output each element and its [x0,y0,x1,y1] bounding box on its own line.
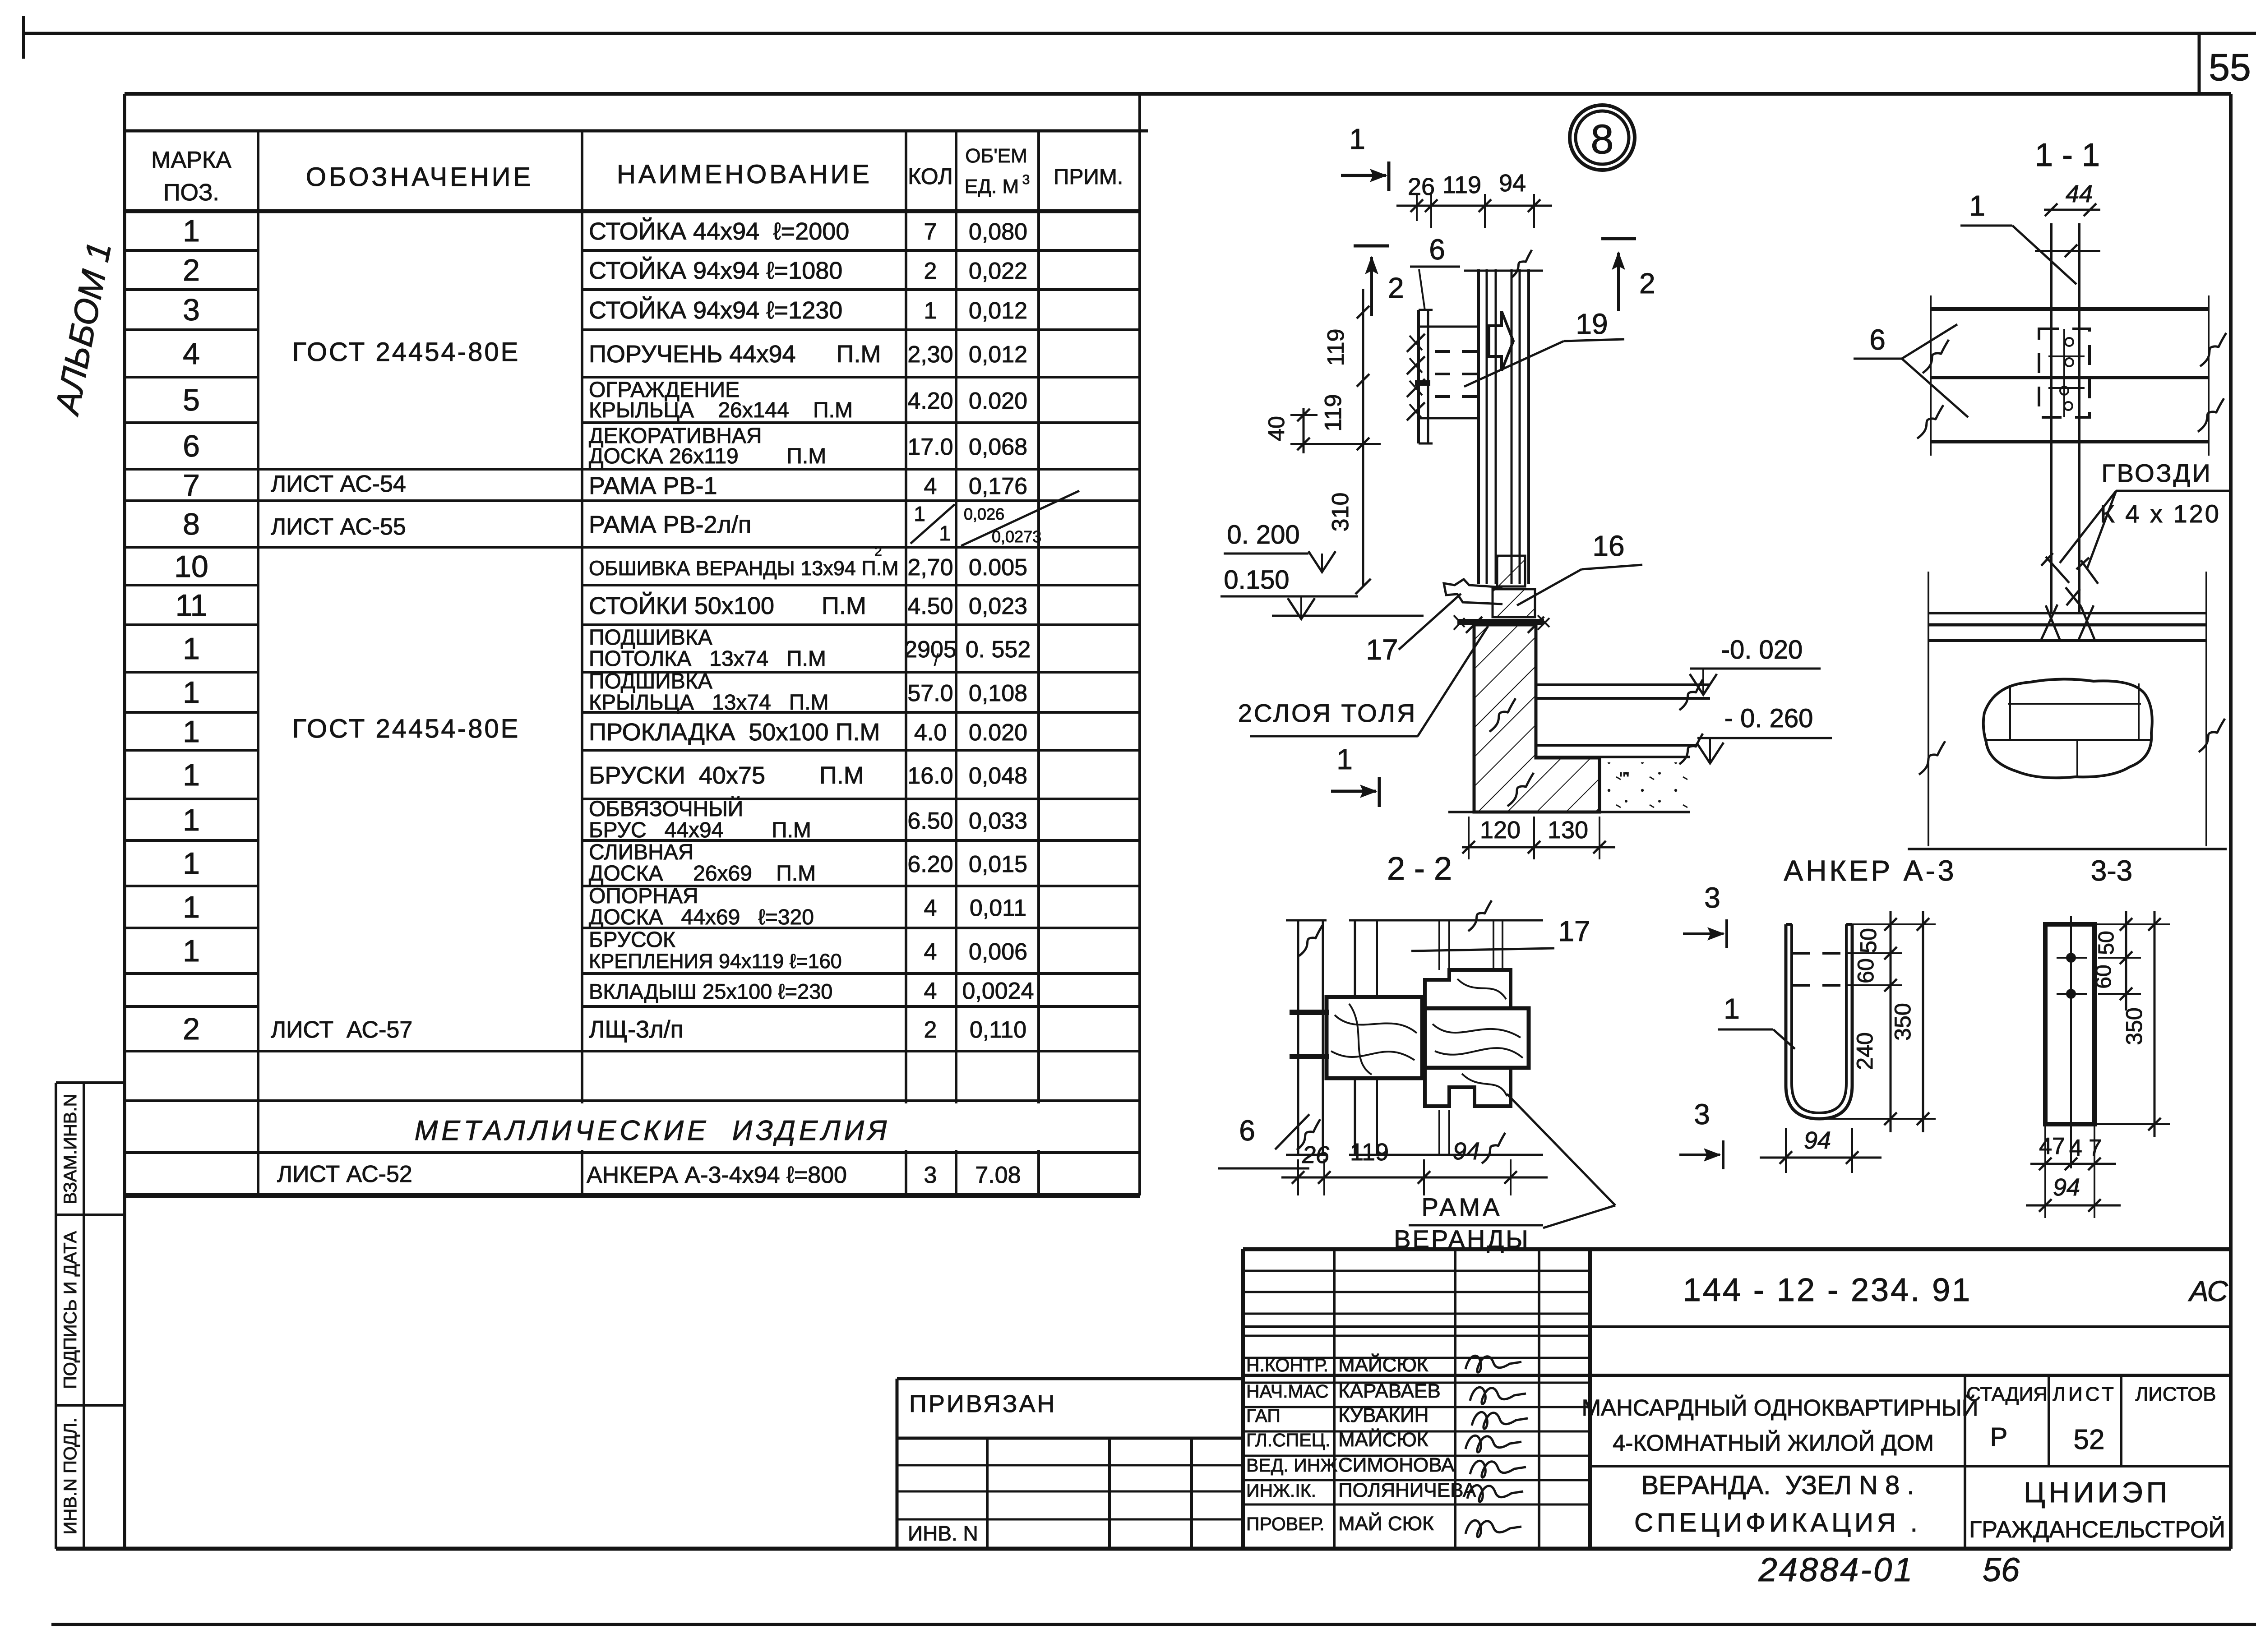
svg-text:КРЕПЛЕНИЯ 94х119 ℓ=160: КРЕПЛЕНИЯ 94х119 ℓ=160 [589,950,842,973]
svg-text:ГОСТ 24454-80Е: ГОСТ 24454-80Е [292,337,520,367]
svg-text:94: 94 [1804,1127,1831,1154]
svg-text:1: 1 [183,632,200,666]
3-3 axis line [2070,916,2072,1168]
anchor dim line inner [1890,911,1892,1132]
table bottom thick line [125,1193,1140,1198]
svg-text:4 7: 4 7 [2069,1135,2102,1161]
svg-text:МАЙСЮК: МАЙСЮК [1338,1353,1428,1376]
svg-text:К 4 х 120: К 4 х 120 [2100,499,2221,528]
svg-text:ЛИСТ АС-52: ЛИСТ АС-52 [277,1161,412,1187]
svg-text:ЛИСТ: ЛИСТ [2053,1383,2117,1405]
svg-text:ОБ'ЕМ: ОБ'ЕМ [965,145,1027,167]
svg-text:ПОРУЧЕНЬ 44х94 П.М: ПОРУЧЕНЬ 44х94 П.М [589,341,881,368]
decorative board (pos 6) left [1417,310,1420,443]
svg-text:4: 4 [924,978,937,1004]
svg-text:3: 3 [183,293,200,327]
svg-text:310: 310 [1327,493,1354,532]
sheet outer top border [23,32,2256,35]
svg-text:ДОСКА 26х119 П.М: ДОСКА 26х119 П.М [589,444,826,468]
svg-text:''': ''' [1619,769,1630,789]
svg-text:МАЙСЮК: МАЙСЮК [1338,1428,1428,1451]
svg-text:2905: 2905 [904,637,957,663]
U-shaped anchor [1786,924,1852,1119]
svg-text:17: 17 [1366,633,1398,666]
left margin strip box [55,1083,57,1549]
svg-text:50: 50 [1856,928,1881,953]
svg-text:Н.КОНТР.: Н.КОНТР. [1246,1355,1328,1375]
svg-text:2: 2 [1639,267,1655,300]
svg-text:0,023: 0,023 [969,593,1027,619]
nails crossing stud [2041,553,2069,583]
svg-text:2,30: 2,30 [907,341,953,368]
anchor dim line outer 350 [1922,911,1924,1132]
2-2 top cut line [1349,919,1543,922]
anchor dashed crossbars [1792,952,1846,955]
svg-text:16.0: 16.0 [907,763,953,789]
svg-text:0,048: 0,048 [969,763,1027,789]
section mark 2 left [1354,245,1389,248]
svg-text:Р: Р [1990,1422,2008,1452]
svg-text:0,012: 0,012 [969,341,1027,368]
page number box left side [2198,33,2201,94]
svg-text:СТОЙКА 94х94 ℓ=1080: СТОЙКА 94х94 ℓ=1080 [589,257,842,284]
svg-text:0.020: 0.020 [969,720,1027,746]
1-1 sill horizontal lines [1928,612,2206,614]
svg-text:АНКЕР А-3: АНКЕР А-3 [1784,854,1957,887]
svg-text:КРЫЛЬЦА 26х144 П.М: КРЫЛЬЦА 26х144 П.М [589,398,853,422]
svg-text:1: 1 [183,214,200,248]
svg-text:24884-01: 24884-01 [1758,1551,1914,1588]
svg-text:1: 1 [183,758,200,792]
svg-text:0,080: 0,080 [969,219,1027,245]
svg-text:60: 60 [2092,964,2116,988]
anchor dim guides [1852,923,1936,925]
drawing frame top line [125,92,2231,96]
svg-text:56: 56 [1983,1551,2020,1588]
svg-text:7.08: 7.08 [975,1162,1021,1188]
2-2 wall boards left [1297,920,1299,1155]
2-2 bottom cut line [1349,1154,1543,1156]
title block outer top [1243,1247,2231,1251]
svg-text:0,108: 0,108 [969,680,1027,706]
node 8 circle [1570,105,1635,170]
roofing felt thick band [1457,619,1544,625]
svg-text:КРЫЛЬЦА 13х74 П.М: КРЫЛЬЦА 13х74 П.М [589,691,829,715]
svg-text:1: 1 [1724,992,1740,1025]
svg-text:94: 94 [1499,170,1526,197]
svg-text:РАМА РВ-1: РАМА РВ-1 [589,472,717,499]
svg-text:1: 1 [1336,743,1353,775]
svg-text:ГВОЗДИ: ГВОЗДИ [2101,459,2212,487]
svg-text:7: 7 [183,468,200,503]
3-3 bottom dims 47 47 [2030,1163,2116,1165]
2-2 wood block bottom small [1425,1068,1511,1106]
svg-text:19: 19 [1576,308,1608,340]
svg-text:4.50: 4.50 [907,593,953,619]
svg-text:94: 94 [2053,1174,2080,1201]
svg-text:350: 350 [2122,1007,2147,1045]
svg-text:119: 119 [1442,171,1481,198]
svg-text:0,022: 0,022 [969,258,1027,284]
svg-text:1: 1 [183,715,200,749]
svg-text:СИМОНОВА: СИМОНОВА [1338,1454,1455,1476]
specification table header lines [125,129,1148,133]
specification table verticals [123,94,126,1549]
top dimension line 26 119 94 [1396,205,1552,207]
tongue arrow profile [1489,311,1513,371]
3-3 dim guides right [2094,923,2170,925]
svg-text:ПОТОЛКА 13х74 П.М: ПОТОЛКА 13х74 П.М [589,647,826,671]
svg-text:350: 350 [1890,1003,1915,1040]
section mark 2 right [1601,237,1636,240]
svg-text:ГАП: ГАП [1246,1405,1281,1426]
2-2 vertical frame lines [1354,920,1356,997]
svg-text:БРУСКИ 40х75 П.М: БРУСКИ 40х75 П.М [589,762,864,789]
svg-text:0,012: 0,012 [969,298,1027,324]
svg-text:94: 94 [1453,1138,1480,1165]
svg-text:МЕТАЛЛИЧЕСКИЕ ИЗДЕЛИЯ: МЕТАЛЛИЧЕСКИЕ ИЗДЕЛИЯ [415,1115,891,1146]
svg-text:1: 1 [924,298,937,324]
hatched sill blocks [1497,556,1525,586]
svg-text:6.50: 6.50 [907,808,953,834]
vertical dimension chain 119/119/310 [1362,289,1364,586]
ground line under pier [1448,811,1690,813]
svg-text:ЛИСТ АС-55: ЛИСТ АС-55 [271,514,406,540]
svg-text:1: 1 [183,803,200,837]
svg-text:4: 4 [924,895,937,921]
svg-text:130: 130 [1548,817,1588,844]
svg-text:ПОДШИВКА: ПОДШИВКА [589,669,712,693]
svg-text:ЛИСТ АС-57: ЛИСТ АС-57 [271,1017,412,1043]
privyazan box [897,1377,1243,1380]
brick pier hatched [1474,625,1600,812]
svg-text:3: 3 [1694,1098,1710,1131]
svg-text:0,015: 0,015 [969,851,1027,877]
1-1 stud vertical lines [2050,223,2053,613]
svg-text:ПОДПИСЬ И ДАТА: ПОДПИСЬ И ДАТА [60,1231,80,1389]
svg-text:ГОСТ 24454-80Е: ГОСТ 24454-80Е [292,714,520,743]
svg-text:40: 40 [1264,416,1289,441]
svg-text:17.0: 17.0 [907,434,953,460]
svg-text:0.005: 0.005 [969,554,1027,581]
svg-text:ИНВ. N: ИНВ. N [908,1522,978,1545]
svg-text:4: 4 [183,337,200,371]
svg-text:ЛИСТ АС-54: ЛИСТ АС-54 [271,471,406,497]
svg-text:119: 119 [1350,1139,1389,1166]
post top cut line [1464,270,1543,272]
svg-text:ПРОВЕР.: ПРОВЕР. [1246,1514,1325,1534]
svg-text:8: 8 [183,507,200,541]
svg-text:120: 120 [1480,817,1521,844]
1-1 anchor dashed rect [2039,329,2090,417]
nail cross ticks on board [1407,334,1425,352]
svg-text:0,006: 0,006 [969,939,1027,965]
svg-text:119: 119 [1320,394,1346,432]
svg-text:2СЛОЯ ТОЛЯ: 2СЛОЯ ТОЛЯ [1238,699,1417,727]
drawing frame bottom line [56,1547,2231,1551]
svg-text:СТОЙКИ 50х100 П.М: СТОЙКИ 50х100 П.М [589,592,866,619]
svg-text:4: 4 [924,473,937,499]
sheet outer bottom border [51,1623,2256,1626]
svg-text:16: 16 [1592,530,1624,562]
svg-text:ЕД. М: ЕД. М [965,175,1019,198]
svg-text:СТОЙКА 44х94 ℓ=2000: СТОЙКА 44х94 ℓ=2000 [589,217,849,245]
svg-text:ВЕРАНДА. УЗЕЛ N 8 .: ВЕРАНДА. УЗЕЛ N 8 . [1641,1471,1914,1500]
svg-text:БРУСОК: БРУСОК [589,928,675,952]
svg-text:1: 1 [183,846,200,881]
svg-text:2: 2 [924,258,937,284]
2-2 wood block middle (stoika) with grain [1425,1008,1529,1068]
svg-text:МАЙ СЮК: МАЙ СЮК [1338,1512,1434,1535]
svg-text:52: 52 [2074,1424,2105,1455]
svg-text:БРУС 44х94 П.М: БРУС 44х94 П.М [589,818,811,842]
1-1 side verticals below [1928,572,1929,846]
svg-text:6: 6 [1429,233,1445,266]
svg-text:2: 2 [874,544,882,559]
3-3 bottom dim 94 [2026,1204,2121,1207]
svg-text:50: 50 [2094,931,2118,955]
svg-text:КАРАВАЕВ: КАРАВАЕВ [1338,1380,1441,1402]
svg-text:ПРИМ.: ПРИМ. [1054,165,1123,189]
svg-text:0,176: 0,176 [969,473,1027,499]
svg-text:ДОСКА 26х69 П.М: ДОСКА 26х69 П.М [589,862,816,886]
svg-text:17: 17 [1558,915,1590,947]
concrete base dotted [1600,762,1690,812]
anchor bottom dim 94 [1760,1157,1882,1159]
svg-text:КУВАКИН: КУВАКИН [1338,1404,1428,1426]
stage/sheet cells [1964,1375,1966,1549]
specification table row lines [125,249,258,252]
svg-text:11: 11 [176,588,208,623]
svg-text:ИНВ.N ПОДЛ.: ИНВ.N ПОДЛ. [60,1418,80,1535]
svg-text:ПРОКЛАДКА 50х100 П.М: ПРОКЛАДКА 50х100 П.М [589,719,880,746]
svg-text:1: 1 [939,521,951,545]
svg-text:4-КОМНАТНЫЙ ЖИЛОЙ ДОМ: 4-КОМНАТНЫЙ ЖИЛОЙ ДОМ [1613,1430,1934,1456]
svg-text:2: 2 [924,1017,937,1043]
svg-text:ОПОРНАЯ: ОПОРНАЯ [589,884,698,908]
svg-text:4: 4 [924,939,937,965]
1-1 foundation stone blob [1983,679,2152,778]
svg-text:ОБШИВКА ВЕРАНДЫ 13х94 П.М: ОБШИВКА ВЕРАНДЫ 13х94 П.М [589,557,899,580]
svg-text:ЛЩ-3л/п: ЛЩ-3л/п [589,1016,684,1043]
top-left border end tick [22,16,25,59]
floor boards right of pier [1536,683,1710,686]
svg-text:- 0. 260: - 0. 260 [1724,704,1813,733]
svg-text:6: 6 [1869,323,1886,356]
svg-text:6: 6 [1239,1114,1255,1147]
svg-text:2 - 2: 2 - 2 [1387,851,1452,887]
svg-text:0,011: 0,011 [970,895,1026,921]
title block verticals left part [1241,1249,1245,1549]
svg-text:НАЧ.МАС: НАЧ.МАС [1246,1381,1329,1402]
title block horizontals [1243,1325,2231,1328]
svg-text:ВЕД. ИНЖ: ВЕД. ИНЖ [1246,1455,1337,1476]
svg-text:ПОЛЯНИЧЕВА: ПОЛЯНИЧЕВА [1338,1479,1476,1501]
svg-text:0.150: 0.150 [1224,565,1289,595]
svg-text:0.020: 0.020 [969,388,1027,414]
svg-text:44: 44 [2066,180,2093,208]
svg-text:1: 1 [914,502,925,526]
svg-text:0. 200: 0. 200 [1227,520,1299,549]
svg-text:7: 7 [924,219,937,245]
svg-text:5: 5 [183,383,200,417]
drawing frame right border [2229,94,2233,1549]
svg-text:ПОДШИВКА: ПОДШИВКА [589,626,712,650]
2-2 wood block left (wall beam) with grain [1327,997,1422,1078]
svg-text:АНКЕРА А-3-4х94 ℓ=800: АНКЕРА А-3-4х94 ℓ=800 [587,1162,847,1188]
svg-text:2: 2 [183,253,200,287]
svg-text:0,110: 0,110 [970,1017,1026,1043]
svg-text:ДОСКА 44х69 ℓ=320: ДОСКА 44х69 ℓ=320 [589,905,814,929]
svg-text:-0. 020: -0. 020 [1721,635,1803,664]
svg-text:240: 240 [1852,1032,1877,1070]
svg-text:МАРКА: МАРКА [151,147,231,173]
1-1 horizontal boards [1931,307,2209,311]
svg-text:АС: АС [2187,1275,2228,1307]
svg-text:6: 6 [183,429,200,463]
svg-text:1: 1 [183,890,200,924]
veranda post: vertical boards section lines [1477,269,1480,584]
svg-text:1: 1 [1349,123,1365,155]
svg-text:4.20: 4.20 [907,388,953,414]
svg-text:60: 60 [1853,958,1878,983]
svg-text:3: 3 [924,1162,937,1188]
svg-text:ВЗАМ.ИНВ.N: ВЗАМ.ИНВ.N [60,1094,80,1204]
svg-text:РАМА РВ-2л/п: РАМА РВ-2л/п [589,511,751,538]
svg-text:3: 3 [1022,172,1030,187]
svg-text:1: 1 [183,934,200,968]
table/frame left border [123,94,126,1549]
svg-text:8: 8 [1590,116,1613,162]
svg-text:ЛИСТОВ: ЛИСТОВ [2135,1383,2216,1405]
2-2 bottom dim 26 119 94 [1281,1177,1548,1179]
svg-text:РАМА: РАМА [1422,1193,1502,1221]
svg-text:ВКЛАДЫШ 25х100 ℓ=230: ВКЛАДЫШ 25х100 ℓ=230 [589,979,832,1003]
small table under privyazan [986,1438,989,1549]
svg-text:МАНСАРДНЫЙ ОДНОКВАРТИРНЫЙ: МАНСАРДНЫЙ ОДНОКВАРТИРНЫЙ [1582,1394,1979,1421]
2-2 wood block top small [1425,970,1511,1008]
row 8 diagonal slash cells [911,504,955,544]
svg-text:26: 26 [1408,173,1435,200]
svg-text:1: 1 [183,675,200,710]
svg-text:ОБОЗНАЧЕНИЕ: ОБОЗНАЧЕНИЕ [306,162,533,192]
svg-text:47: 47 [2039,1133,2065,1159]
svg-text:55: 55 [2209,46,2251,88]
svg-text:119: 119 [1323,329,1349,366]
svg-text:СТАДИЯ: СТАДИЯ [1966,1383,2048,1405]
40 dimension [1303,408,1305,453]
svg-text:КОЛ: КОЛ [908,164,953,189]
svg-text:/: / [934,651,938,669]
bottom dim 120 130 [1462,846,1615,849]
svg-text:0,033: 0,033 [969,808,1027,834]
3-3 plate rectangle [2045,924,2094,1124]
svg-text:ГЛ.СПЕЦ.: ГЛ.СПЕЦ. [1246,1430,1330,1450]
svg-text:0,026: 0,026 [964,505,1004,523]
svg-text:ИНЖ.IК.: ИНЖ.IК. [1246,1480,1316,1501]
signatures squiggles [1465,1356,1521,1372]
svg-text:ЦНИИЭП: ЦНИИЭП [2024,1476,2171,1509]
svg-text:СПЕЦИФИКАЦИЯ .: СПЕЦИФИКАЦИЯ . [1634,1508,1921,1537]
svg-text:СЛИВНАЯ: СЛИВНАЯ [589,840,693,864]
svg-text:57.0: 57.0 [907,680,953,706]
svg-text:0,068: 0,068 [969,434,1027,460]
sill profile (pos 17) [1444,579,1502,604]
svg-text:6.20: 6.20 [907,851,953,877]
svg-text:10: 10 [174,549,208,584]
svg-text:ОБВЯЗОЧНЫЙ: ОБВЯЗОЧНЫЙ [589,796,743,821]
svg-text:НАИМЕНОВАНИЕ: НАИМЕНОВАНИЕ [617,160,872,189]
svg-text:0. 552: 0. 552 [966,637,1031,663]
svg-text:3: 3 [1704,881,1720,914]
svg-text:26: 26 [1302,1141,1330,1168]
svg-text:ПОЗ.: ПОЗ. [163,180,219,206]
svg-text:3-3: 3-3 [2091,854,2133,887]
svg-text:0,0024: 0,0024 [962,978,1034,1004]
svg-text:ГРАЖДАНСЕЛЬСТРОЙ: ГРАЖДАНСЕЛЬСТРОЙ [1969,1516,2225,1543]
1-1 bottom line [1908,848,2227,850]
svg-text:ПРИВЯЗАН: ПРИВЯЗАН [909,1390,1057,1417]
svg-text:1: 1 [1969,189,1985,222]
svg-text:СТОЙКА 94х94 ℓ=1230: СТОЙКА 94х94 ℓ=1230 [589,296,842,324]
3-3 bolts [2066,953,2076,963]
svg-text:144 - 12 - 234. 91: 144 - 12 - 234. 91 [1683,1272,1972,1308]
svg-text:2: 2 [183,1012,200,1046]
svg-text:2,70: 2,70 [907,554,953,581]
svg-text:4.0: 4.0 [914,720,947,746]
svg-text:0,0273: 0,0273 [992,527,1041,546]
svg-text:2: 2 [1388,272,1404,304]
svg-text:1 - 1: 1 - 1 [2035,137,2100,173]
